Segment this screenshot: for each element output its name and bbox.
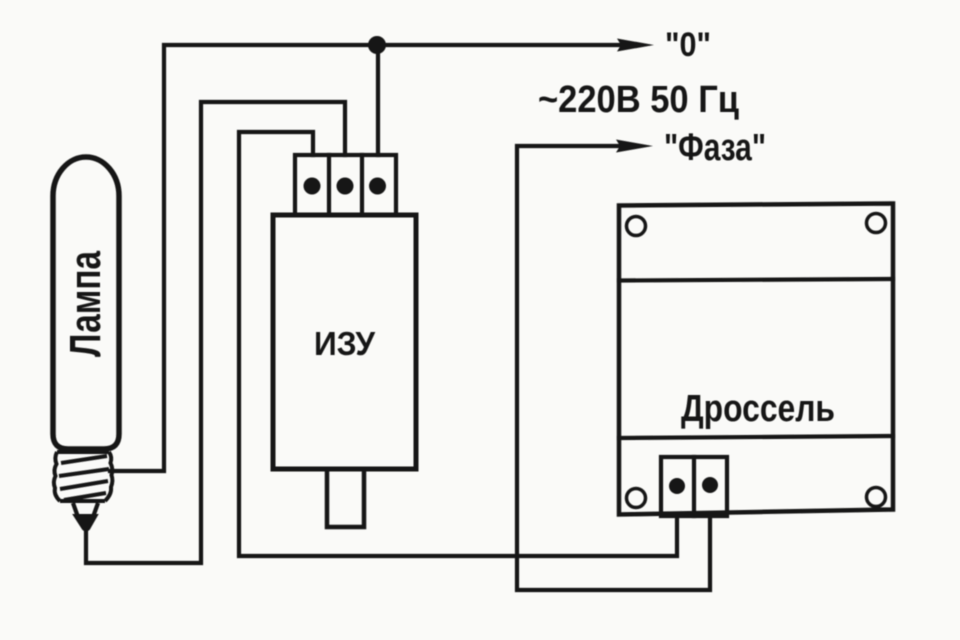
- ballast mounting screw top-left: [627, 217, 646, 236]
- ballast terminal contact dots: [669, 477, 718, 494]
- wire junction drop to ignitor right terminal: [376, 45, 380, 155]
- ballast mounting screw bottom-left: [627, 489, 646, 508]
- svg-text:~220В 50 Гц: ~220В 50 Гц: [538, 79, 740, 121]
- ballast mounting screw bottom-right: [867, 488, 886, 507]
- ballast upper divider line: [619, 279, 893, 281]
- wire ignitor left terminal to ballast left terminal: [239, 132, 677, 556]
- ignitor bottom mounting tab: [327, 469, 364, 527]
- ignitor U1 body: [273, 215, 416, 469]
- lamp screw base with threads: [54, 452, 113, 501]
- ballast lower divider line: [619, 436, 893, 438]
- wire phase net: ballast right terminal to "Фаза" arrow: [517, 146, 710, 590]
- lamp bottom contact tip: [74, 515, 97, 531]
- svg-text:"0": "0": [665, 26, 711, 64]
- svg-text:ИЗУ: ИЗУ: [314, 325, 375, 362]
- arrowhead "Фаза": [616, 140, 653, 153]
- arrowhead "0": [617, 39, 654, 52]
- node junction on neutral wire: [368, 36, 386, 54]
- ignitor U1 terminal block: [295, 155, 396, 215]
- ballast mounting screw top-right: [867, 214, 886, 233]
- ballast L1 body: [619, 204, 893, 515]
- ballast terminal block: [661, 457, 727, 516]
- wire neutral net: lamp base up-left riser and top horizontal to "0" arrow: [110, 45, 620, 471]
- wire lamp tip to ignitor middle terminal: [86, 102, 345, 563]
- svg-text:Лампа: Лампа: [61, 251, 110, 357]
- lamp base neck: [73, 503, 98, 517]
- lamp LA1 bulb envelope: [53, 157, 119, 449]
- svg-text:Дроссель: Дроссель: [681, 388, 835, 430]
- svg-text:"Фаза": "Фаза": [664, 127, 766, 169]
- ignitor terminal contact dots: [304, 178, 387, 195]
